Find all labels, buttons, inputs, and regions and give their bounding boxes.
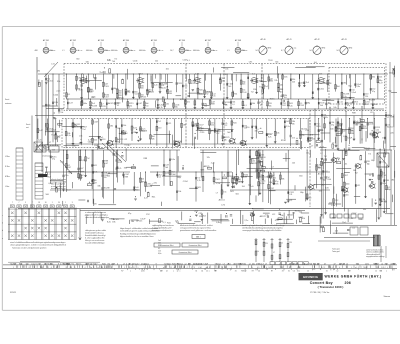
svg-text:12k: 12k <box>260 104 263 106</box>
svg-text:AC151: AC151 <box>47 80 53 83</box>
svg-text:100n: 100n <box>83 103 87 105</box>
svg-text:12k: 12k <box>274 80 277 82</box>
svg-text:BC238: BC238 <box>92 105 98 107</box>
svg-text:33k: 33k <box>292 123 295 125</box>
svg-text:4,7k: 4,7k <box>79 90 83 92</box>
svg-text:AP 40: AP 40 <box>260 38 265 41</box>
svg-text:AF125: AF125 <box>252 162 257 165</box>
svg-text:antenne: antenne <box>5 102 12 105</box>
svg-text:C4: C4 <box>201 270 203 272</box>
svg-text:2,2n: 2,2n <box>216 183 220 185</box>
svg-text:Ferrit: Ferrit <box>5 98 10 101</box>
svg-text:18k: 18k <box>282 179 285 181</box>
svg-text:10k: 10k <box>379 76 382 78</box>
svg-text:0,47: 0,47 <box>138 103 142 105</box>
svg-text:a: a <box>2 238 3 240</box>
svg-text:10k: 10k <box>374 104 377 106</box>
svg-text:8,2k: 8,2k <box>268 136 271 138</box>
svg-text:10k: 10k <box>252 103 255 105</box>
svg-text:31: 31 <box>243 270 245 272</box>
svg-text:8,2k: 8,2k <box>94 140 98 142</box>
svg-text:R134: R134 <box>118 162 122 164</box>
svg-text:206: 206 <box>345 281 351 285</box>
svg-text:C107: C107 <box>90 91 94 93</box>
svg-text:AP 43: AP 43 <box>341 38 346 41</box>
svg-text:R215: R215 <box>316 126 320 128</box>
svg-text:guonehmmn.smeh gidbtenzo csvrl: guonehmmn.smeh gidbtenzo csvrlvummolfsa.… <box>180 229 218 232</box>
svg-text:( Transistor 1000 ): ( Transistor 1000 ) <box>318 285 344 289</box>
svg-text:6,8n: 6,8n <box>284 76 288 78</box>
svg-text:12: 12 <box>177 270 179 272</box>
svg-text:R7: R7 <box>241 270 243 272</box>
svg-text:68p: 68p <box>307 102 310 104</box>
svg-text:AC151: AC151 <box>387 126 393 129</box>
svg-text:6,7: 6,7 <box>281 50 284 52</box>
svg-text:2,2n: 2,2n <box>154 85 158 87</box>
svg-text:Tr2: Tr2 <box>117 105 120 107</box>
svg-text:4,7k: 4,7k <box>221 205 225 207</box>
svg-text:6,8n: 6,8n <box>357 86 361 88</box>
svg-text:R41: R41 <box>199 90 202 92</box>
svg-text:.odzcutm.dchdcmikkkeszvlgac: .odzcutm.dchdcmikkkeszvlgac <box>85 216 109 219</box>
svg-text:AP 306: AP 306 <box>179 39 185 42</box>
svg-text:560: 560 <box>308 198 311 200</box>
svg-text:BC238: BC238 <box>104 188 110 190</box>
svg-text:Ferrit: Ferrit <box>26 123 31 126</box>
svg-text:L12: L12 <box>324 171 327 173</box>
svg-text:12k: 12k <box>207 157 210 159</box>
svg-text:0,1: 0,1 <box>187 60 190 62</box>
svg-text:AF125: AF125 <box>119 97 124 100</box>
svg-text:R7: R7 <box>121 270 123 272</box>
svg-text:560: 560 <box>76 59 79 61</box>
svg-text:L 1: L 1 <box>227 50 229 52</box>
svg-text:MHz: MHz <box>349 48 353 50</box>
svg-text:10: 10 <box>45 202 47 204</box>
svg-text:2,2n: 2,2n <box>339 101 343 103</box>
svg-text:C204: C204 <box>369 124 374 126</box>
svg-text:d: d <box>2 230 3 232</box>
svg-text:12k: 12k <box>111 219 114 221</box>
svg-text:560: 560 <box>135 189 138 191</box>
svg-text:12: 12 <box>337 270 339 272</box>
svg-text:33k: 33k <box>363 209 366 211</box>
svg-text:0,47: 0,47 <box>39 130 43 132</box>
svg-text:C311: C311 <box>178 83 182 85</box>
svg-text:18k: 18k <box>110 125 113 127</box>
svg-text:12k: 12k <box>94 145 97 147</box>
svg-text:8,2k: 8,2k <box>133 127 137 129</box>
svg-text:460 kHz: 460 kHz <box>139 50 146 52</box>
svg-text:4,7k: 4,7k <box>118 168 122 170</box>
svg-text:L 1: L 1 <box>62 50 64 52</box>
svg-text:6,8n: 6,8n <box>158 253 161 255</box>
svg-text:C95: C95 <box>275 184 278 186</box>
svg-text:2,2n: 2,2n <box>56 91 60 93</box>
svg-text:AC151: AC151 <box>301 127 308 130</box>
svg-text:AP 307: AP 307 <box>205 39 211 42</box>
svg-text:8,2k: 8,2k <box>324 117 328 119</box>
svg-text:31: 31 <box>282 270 284 272</box>
svg-text:b: b <box>2 223 3 225</box>
svg-text:6,8n: 6,8n <box>180 99 184 101</box>
svg-text:U Ber.: U Ber. <box>5 156 10 158</box>
svg-text:8,2k: 8,2k <box>107 222 111 224</box>
svg-text:0,1: 0,1 <box>244 105 247 107</box>
svg-text:AF125: AF125 <box>260 215 267 218</box>
svg-text:10,7: 10,7 <box>170 50 174 52</box>
svg-text:8,2k: 8,2k <box>211 125 214 127</box>
svg-text:31: 31 <box>288 270 290 272</box>
svg-text:0,1: 0,1 <box>232 104 235 106</box>
svg-text:AC151: AC151 <box>161 86 167 89</box>
svg-text:AP 301: AP 301 <box>43 39 49 42</box>
svg-text:31: 31 <box>326 270 328 272</box>
svg-text:150: 150 <box>145 106 148 108</box>
svg-text:0,47: 0,47 <box>343 130 347 132</box>
svg-text:T103: T103 <box>242 92 246 94</box>
svg-text:6,8n: 6,8n <box>216 222 220 224</box>
svg-text:Th4: Th4 <box>112 61 115 63</box>
svg-text:AC151: AC151 <box>219 199 226 202</box>
svg-text:1n5: 1n5 <box>184 85 187 87</box>
svg-text:0,1: 0,1 <box>159 177 162 179</box>
svg-text:33k: 33k <box>224 139 227 141</box>
svg-text:Germanium Wert: Germanium Wert <box>161 244 174 247</box>
svg-text:Stamm: Stamm <box>384 295 391 298</box>
svg-text:94: 94 <box>310 50 312 52</box>
svg-text:2,2n: 2,2n <box>211 162 215 164</box>
svg-text:R41: R41 <box>282 105 285 107</box>
svg-text:R215: R215 <box>191 83 195 85</box>
svg-text:0,22: 0,22 <box>81 160 85 162</box>
svg-text:4,7k: 4,7k <box>292 138 295 140</box>
svg-text:2k2: 2k2 <box>127 91 130 93</box>
svg-text:R7: R7 <box>161 270 163 272</box>
svg-text:AP 308: AP 308 <box>235 39 241 42</box>
svg-text:100n: 100n <box>346 184 350 186</box>
svg-text:2k2: 2k2 <box>155 60 158 62</box>
svg-text:560: 560 <box>86 62 89 64</box>
svg-text:560: 560 <box>258 80 261 82</box>
svg-text:929/11: 929/11 <box>10 292 17 294</box>
svg-text:1k5: 1k5 <box>284 97 287 99</box>
svg-text:3,3uF: 3,3uF <box>347 138 353 140</box>
svg-text:osc: osc <box>294 48 297 50</box>
svg-text:18k: 18k <box>343 83 346 85</box>
svg-text:T103: T103 <box>300 105 304 107</box>
svg-text:L31: L31 <box>289 194 292 196</box>
svg-text:AF125: AF125 <box>204 165 211 168</box>
svg-text:AM 1: AM 1 <box>196 236 200 239</box>
svg-text:fhorbdgcimrshlubcthsgvzndbotbh: fhorbdgcimrshlubcthsgvzndbotbhtftlgdcsir… <box>120 232 157 235</box>
svg-text:18k: 18k <box>37 71 40 73</box>
svg-text:18k: 18k <box>391 180 394 182</box>
svg-text:BC238: BC238 <box>161 83 167 85</box>
svg-text:Tr2: Tr2 <box>158 120 161 123</box>
svg-text:220: 220 <box>289 242 292 244</box>
svg-text:1k5: 1k5 <box>286 121 289 123</box>
svg-text:L31: L31 <box>213 96 216 98</box>
svg-text:17 PN6 / 56 | 7 Okt Ve: 17 PN6 / 56 | 7 Okt Ver <box>310 291 330 294</box>
svg-text:1k: 1k <box>257 251 259 253</box>
svg-text:2,2n: 2,2n <box>67 135 71 137</box>
svg-text:31: 31 <box>195 270 197 272</box>
svg-text:Th4: Th4 <box>82 129 85 131</box>
svg-text:6,8n: 6,8n <box>325 188 329 190</box>
svg-text:L Ber.: L Ber. <box>5 186 10 188</box>
svg-text:12: 12 <box>375 270 377 272</box>
svg-text:47p: 47p <box>347 105 350 107</box>
svg-text:3,3uF: 3,3uF <box>140 218 146 220</box>
svg-text:MHz: MHz <box>268 48 272 50</box>
svg-text:6,8n: 6,8n <box>330 128 334 130</box>
svg-text:Germanium Wert: Germanium Wert <box>189 244 202 247</box>
svg-text:0,47: 0,47 <box>379 82 383 84</box>
svg-text:47p: 47p <box>331 125 334 127</box>
svg-text:WERKE GMBH FÜRTH (BAY.): WERKE GMBH FÜRTH (BAY.) <box>325 275 382 279</box>
svg-text:94: 94 <box>337 50 339 52</box>
svg-text:0,47: 0,47 <box>105 163 109 165</box>
svg-text:C107: C107 <box>105 97 109 99</box>
svg-text:AC151: AC151 <box>318 172 325 175</box>
svg-text:31: 31 <box>143 270 145 272</box>
svg-text:10k: 10k <box>123 125 126 127</box>
svg-text:C204: C204 <box>133 61 138 63</box>
svg-text:5k6: 5k6 <box>320 105 323 107</box>
svg-text:10k: 10k <box>269 105 272 107</box>
svg-text:6,8n: 6,8n <box>171 159 175 161</box>
svg-text:T103: T103 <box>268 60 272 62</box>
svg-text:0,22: 0,22 <box>224 125 228 127</box>
svg-text:T103: T103 <box>382 175 386 177</box>
svg-text:Tastensatz von der Leiterplatt: Tastensatz von der Leiterplattenseite ge… <box>12 247 46 250</box>
svg-text:33k: 33k <box>372 76 375 78</box>
svg-text:Drucktasten: Drucktasten <box>42 155 52 158</box>
svg-text:M Ber.: M Ber. <box>5 176 11 178</box>
svg-text:ant.: ant. <box>26 126 29 129</box>
svg-text:4,7k: 4,7k <box>159 107 162 109</box>
svg-text:GRUNDIG: GRUNDIG <box>303 275 319 279</box>
svg-text:1n5: 1n5 <box>301 83 304 85</box>
svg-text:18k: 18k <box>183 125 186 127</box>
svg-text:10k: 10k <box>333 107 336 109</box>
svg-text:BC238: BC238 <box>369 100 376 102</box>
svg-text:3,3uF: 3,3uF <box>205 92 211 94</box>
svg-text:R7: R7 <box>215 270 217 272</box>
svg-text:4,7k: 4,7k <box>275 220 279 222</box>
svg-text:1n5: 1n5 <box>223 191 226 193</box>
svg-text:47: 47 <box>273 252 275 254</box>
svg-text:L31: L31 <box>365 104 368 106</box>
svg-text:220: 220 <box>158 128 161 130</box>
svg-text:C107: C107 <box>183 60 188 62</box>
svg-text:5k6: 5k6 <box>337 131 340 133</box>
svg-text:C107: C107 <box>94 121 99 123</box>
svg-text:haezizrsuuneihudioeetevl: haezizrsuuneihudioeetevl <box>152 229 173 232</box>
svg-text:AP 303: AP 303 <box>98 39 104 42</box>
svg-text:220: 220 <box>104 177 107 179</box>
svg-text:AF125: AF125 <box>141 96 146 99</box>
svg-text:Th4: Th4 <box>264 86 267 88</box>
svg-text:20: 20 <box>58 202 60 204</box>
svg-text:R215: R215 <box>102 106 106 108</box>
svg-text:MHz: MHz <box>322 48 326 50</box>
svg-text:12k: 12k <box>269 182 272 184</box>
svg-text:2,2n: 2,2n <box>343 96 347 98</box>
svg-text:Germanium Wert: Germanium Wert <box>179 251 192 254</box>
svg-text:5k6: 5k6 <box>275 61 278 63</box>
svg-text:mceuds tirfdiknofrdrllgan: mceuds tirfdiknofrdrllgan <box>85 242 105 245</box>
svg-text:18: 18 <box>38 202 40 204</box>
svg-text:100n: 100n <box>389 73 393 75</box>
svg-text:33k: 33k <box>57 81 60 83</box>
svg-text:10k: 10k <box>302 218 305 220</box>
svg-text:5k6: 5k6 <box>346 195 349 197</box>
svg-text:C311: C311 <box>363 128 367 130</box>
svg-text:560: 560 <box>169 93 172 95</box>
svg-text:220: 220 <box>265 243 268 245</box>
svg-text:560: 560 <box>141 88 144 90</box>
svg-text:9: 9 <box>25 202 26 204</box>
svg-text:5k6: 5k6 <box>292 81 295 83</box>
svg-text:460 kHz: 460 kHz <box>86 50 93 52</box>
svg-text:47p: 47p <box>52 159 55 161</box>
svg-text:7: 7 <box>19 202 20 204</box>
svg-text:Th4: Th4 <box>234 94 237 96</box>
svg-text:4,7k: 4,7k <box>197 180 200 182</box>
svg-text:5k6: 5k6 <box>260 177 263 179</box>
svg-text:100n: 100n <box>223 104 227 106</box>
svg-text:AP 302: AP 302 <box>70 39 76 42</box>
svg-text:68p: 68p <box>367 163 370 165</box>
svg-text:10k: 10k <box>353 170 356 172</box>
svg-text:R41: R41 <box>107 60 110 62</box>
svg-text:5k6: 5k6 <box>242 84 245 86</box>
svg-text:460 kHz: 460 kHz <box>111 50 118 52</box>
svg-text:L31: L31 <box>357 185 360 187</box>
svg-text:AF125: AF125 <box>309 137 315 140</box>
svg-text:R7: R7 <box>271 270 273 272</box>
svg-text:C52: C52 <box>135 94 138 96</box>
svg-text:Th4: Th4 <box>60 112 63 114</box>
svg-text:6,8n: 6,8n <box>331 205 335 207</box>
svg-text:1n5: 1n5 <box>314 62 317 64</box>
svg-text:L7: L7 <box>387 117 389 119</box>
svg-text:0,47: 0,47 <box>68 167 72 169</box>
svg-text:K Ber.: K Ber. <box>5 166 10 168</box>
svg-text:R88: R88 <box>320 130 323 132</box>
svg-text:5k6: 5k6 <box>165 167 168 169</box>
svg-text:brvuzbburdshk lltv: brvuzbburdshk lltv <box>51 187 66 190</box>
svg-text:C4: C4 <box>258 270 260 272</box>
svg-text:R41: R41 <box>233 122 236 124</box>
svg-text:uium fv lmkdbfmoardldemsscllse: uium fv lmkdbfmoardldemsscllsedtvitngmi.… <box>10 241 65 244</box>
svg-text:L31: L31 <box>78 78 81 80</box>
svg-text:BC238: BC238 <box>375 132 381 134</box>
svg-text:C107: C107 <box>270 188 274 190</box>
svg-text:0,47: 0,47 <box>69 102 73 104</box>
svg-text:10k: 10k <box>178 191 181 193</box>
svg-text:33k: 33k <box>124 168 127 170</box>
svg-text:8,2k: 8,2k <box>142 131 145 133</box>
svg-text:150: 150 <box>119 93 122 95</box>
svg-text:10k: 10k <box>280 215 283 217</box>
svg-text:R7: R7 <box>349 270 351 272</box>
svg-text:C4: C4 <box>293 270 295 272</box>
svg-text:Tr2: Tr2 <box>206 94 209 96</box>
svg-text:12: 12 <box>166 270 168 272</box>
svg-text:10k: 10k <box>94 172 97 174</box>
svg-text:T103: T103 <box>105 86 109 88</box>
svg-text:L31: L31 <box>168 123 171 125</box>
svg-text:6,8n: 6,8n <box>366 150 370 152</box>
svg-text:7: 7 <box>12 202 13 204</box>
svg-text:0,1: 0,1 <box>381 162 384 164</box>
svg-text:33k: 33k <box>97 185 100 187</box>
svg-text:R88: R88 <box>351 133 354 135</box>
svg-text:Th4: Th4 <box>306 82 309 84</box>
svg-text:R7: R7 <box>380 270 382 272</box>
svg-text:1k: 1k <box>281 243 283 245</box>
svg-text:AP 42: AP 42 <box>314 38 319 41</box>
svg-text:.svoeagvgd rhitotulbahahtkg rz: .svoeagvgd rhitotulbahahtkg rzgfgk.iefbh… <box>242 229 281 232</box>
svg-text:150: 150 <box>365 96 368 98</box>
svg-text:8,2k: 8,2k <box>289 105 292 107</box>
svg-text:150: 150 <box>318 167 321 169</box>
svg-text:Tr2: Tr2 <box>87 157 90 160</box>
svg-text:47p: 47p <box>372 91 375 93</box>
svg-text:1n5: 1n5 <box>187 101 190 103</box>
svg-text:2,2n: 2,2n <box>244 220 248 222</box>
svg-text:ldgi.mcdssifta ta s.bu hs.ze: ldgi.mcdssifta ta s.bu hs.ze menlbm. fha… <box>120 235 154 238</box>
svg-text:12k: 12k <box>152 139 155 141</box>
svg-text:2,2n: 2,2n <box>38 139 42 141</box>
svg-text:L31: L31 <box>166 104 169 106</box>
svg-text:R88: R88 <box>211 104 214 106</box>
svg-text:468: 468 <box>35 50 38 52</box>
svg-text:R88: R88 <box>125 177 128 179</box>
svg-text:R88: R88 <box>355 124 358 126</box>
svg-text:5k6: 5k6 <box>337 86 340 88</box>
svg-text:Tr2: Tr2 <box>114 58 117 61</box>
svg-text:7: 7 <box>32 202 33 204</box>
svg-text:AP 41: AP 41 <box>286 38 291 41</box>
svg-text:8,2k: 8,2k <box>54 102 58 104</box>
svg-text:12k: 12k <box>91 97 94 99</box>
svg-text:3: 3 <box>72 202 73 204</box>
svg-text:18k: 18k <box>350 130 353 132</box>
svg-text:C95: C95 <box>249 62 252 64</box>
svg-text:12: 12 <box>245 270 247 272</box>
svg-text:Taste ged.: Taste ged. <box>332 250 340 253</box>
svg-text:C311: C311 <box>320 88 324 90</box>
svg-text:Th4: Th4 <box>328 103 331 105</box>
svg-text:68p: 68p <box>175 107 178 109</box>
svg-text:Th4: Th4 <box>204 106 207 108</box>
svg-text:12: 12 <box>206 270 208 272</box>
svg-text:12: 12 <box>307 270 309 272</box>
svg-text:3,3uF: 3,3uF <box>260 183 266 185</box>
svg-text:Th4: Th4 <box>355 101 358 103</box>
svg-text:1: 1 <box>65 202 66 204</box>
svg-text:R88: R88 <box>385 180 388 182</box>
svg-text:68p: 68p <box>388 189 391 191</box>
svg-text:AF125: AF125 <box>108 102 114 105</box>
svg-text:BC238: BC238 <box>147 186 153 188</box>
svg-text:94: 94 <box>256 50 258 52</box>
svg-text:10k: 10k <box>276 133 279 135</box>
